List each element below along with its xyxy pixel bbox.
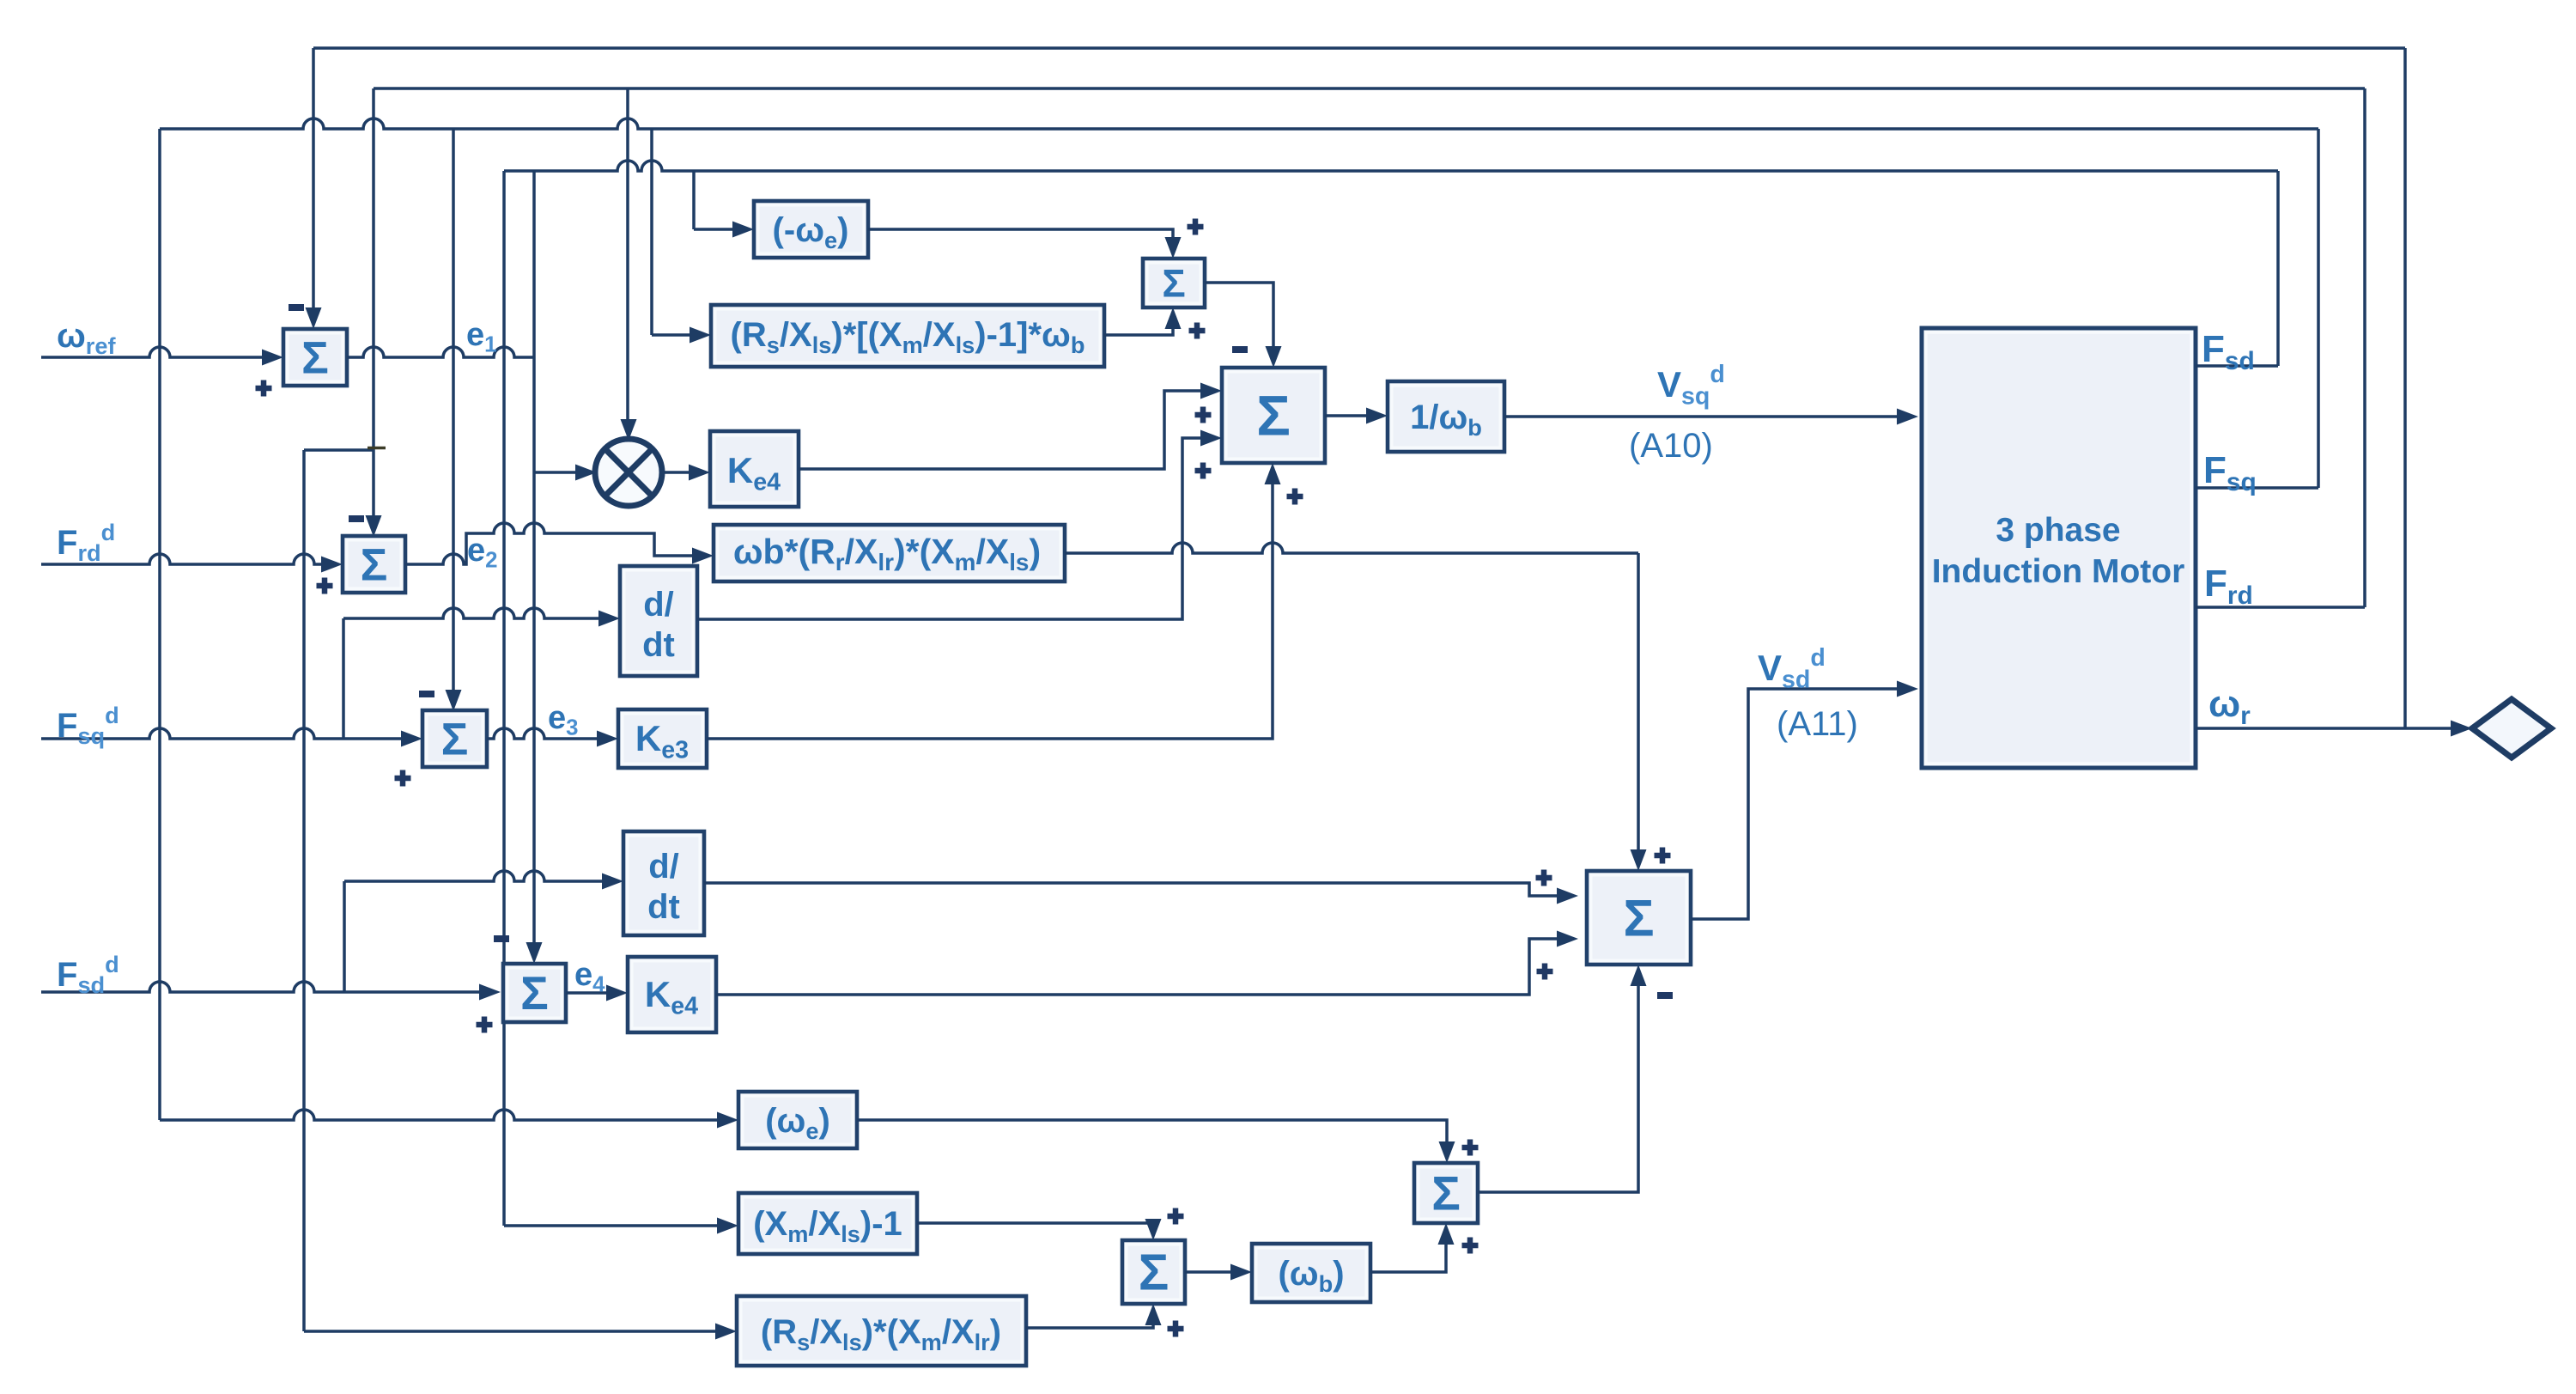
sum S4 (Vsq equation sum) [1222, 368, 1325, 463]
wire L2 Frd feedback line [374, 87, 2365, 90]
wire Fsq output from motor [2196, 486, 2318, 490]
plus sign at S3e left input [395, 770, 411, 787]
wire L4 Fsd feedback line [504, 161, 2278, 171]
svg-text:(A11): (A11) [1777, 705, 1858, 743]
wire into (omega-e) block [160, 1110, 730, 1120]
wire (Xm/Xls)-1 output to S5 top [917, 1223, 1153, 1231]
output port diamond (omega-r) [2472, 699, 2551, 758]
wire Ke3 output up into S4 bottom [707, 472, 1273, 739]
wire e2 from S2 stepping up over verticals then into wb*(Rr/Xlr)*(Xm/Xls) [405, 523, 705, 564]
svg-text:(ωe): (ωe) [765, 1102, 830, 1144]
svg-text:Σ: Σ [441, 714, 469, 764]
wire d/dt upper output to S4 left input 2 [697, 438, 1213, 619]
plus sign at S3 top input [1188, 219, 1204, 235]
wire S5 output to (wb) [1185, 1270, 1243, 1274]
multiplier X1 (product junction) [595, 439, 662, 506]
sum S7 (Vsd equation sum) [1587, 871, 1691, 965]
block 3-phase induction motor [1922, 328, 2196, 768]
svg-text:(A10): (A10) [1629, 427, 1713, 465]
svg-text:d/: d/ [648, 848, 679, 886]
svg-text:Σ: Σ [1139, 1244, 1170, 1301]
plus sign at S2 left input [317, 578, 333, 594]
svg-text:Σ: Σ [1431, 1166, 1461, 1221]
sum S6 [1414, 1163, 1478, 1223]
plus sign at S4 bottom input [1287, 489, 1303, 505]
sum S5 [1122, 1240, 1185, 1304]
svg-text:Σ: Σ [1256, 384, 1291, 447]
svg-text:Σ: Σ [361, 539, 388, 590]
wire (Rs...)wb output to S3 bottom [1104, 317, 1173, 335]
plus sign at S1 left input [256, 380, 272, 397]
wire L1 omega-r feedback top line [313, 46, 2405, 50]
wire Ke4a output to S4 left input 1 [799, 391, 1213, 469]
plus sign at S5 top input [1168, 1208, 1184, 1225]
wire multiplier output to Ke4a [660, 471, 702, 474]
wire from L4 down to (-omega-e) input [692, 171, 696, 229]
wire S4 output to 1/wb [1325, 414, 1379, 417]
wire e1 from S1 to V622 [347, 347, 534, 357]
wire V435 from L2 down into sum S2 top [372, 88, 375, 527]
svg-text:3 phase: 3 phase [1996, 512, 2120, 549]
svg-text:dt: dt [642, 626, 675, 664]
wire (-omega-e) output to S3 top [868, 229, 1173, 249]
plus sign at S5 bottom input [1168, 1321, 1184, 1337]
minus sign at S7 bottom input [1657, 992, 1673, 999]
block Ke4 (first gain) [710, 431, 799, 507]
svg-text:Σ: Σ [1162, 261, 1185, 305]
plus sign at S6 top input [1462, 1140, 1479, 1156]
wire V759 corner into block [652, 333, 702, 337]
sum S1 (speed error e1) [283, 329, 347, 386]
wire riser down into S7 top [1637, 553, 1640, 861]
block d/dt upper [620, 566, 697, 676]
plus sign at S4 input 2 [1195, 463, 1212, 479]
svg-text:dt: dt [647, 888, 680, 926]
wire Fsq-d branch up to d/dt upper [342, 618, 345, 739]
wire V2700 Fsq riser [2317, 129, 2320, 488]
wire V587 from L4 down to (Xm/Xls)-1 input [502, 171, 506, 1226]
wire d/dt lower output to S7 left input 1 [704, 883, 1570, 896]
wire (Rs/Xls)*(Xm/Xlr) output to S5 bottom [1026, 1313, 1153, 1328]
plus sign at S7 input 2 [1537, 964, 1553, 980]
minus sign at S2 top input [349, 515, 364, 522]
wire Fsd-d branch up to d/dt lower [343, 881, 346, 992]
wire V587 corner to (Xm/Xls)-1 block [504, 1224, 730, 1227]
plus sign at S4e left input [477, 1017, 493, 1033]
wire Ke4b output to S7 left input 2 [716, 939, 1570, 995]
svg-text:(-ωe): (-ωe) [773, 211, 849, 253]
wire S7 output up to Vsd-d row and into motor [1691, 689, 1910, 919]
plus sign at S7 input 1 [1536, 870, 1552, 886]
wire into d/dt lower [344, 871, 615, 881]
wire V354 corner to (Rs/Xls)*(Xm/Xlr) block [304, 1330, 728, 1333]
plus sign at S7 top input [1655, 848, 1671, 864]
wire (omega-e) output to S6 top [857, 1120, 1447, 1154]
minus sign at S4 top input [1232, 346, 1248, 353]
block Ke3 [618, 709, 707, 768]
wire V2801 omega-r riser [2403, 48, 2407, 728]
wire into (-omega-e) block [694, 228, 745, 231]
wire (wb) output to S6 bottom [1370, 1233, 1446, 1272]
block (-omega-e) [754, 201, 868, 258]
block d/dt lower [623, 831, 704, 935]
block (wb) [1252, 1244, 1370, 1302]
block (omega-e) [738, 1092, 857, 1148]
wire V354 long vertical to (Rs/Xls)*(Xm/Xlr) input [302, 450, 306, 1331]
wire V186 long vertical from L3 to (omega-e) row [158, 129, 161, 1120]
plus sign at S4 input 1 [1195, 407, 1212, 423]
plus sign at S3 bottom input [1189, 323, 1206, 339]
wire V2754 Frd riser [2363, 88, 2366, 607]
svg-text:(ωb): (ωb) [1278, 1255, 1344, 1297]
wire V759 from L3 down to (Rs/Xls)*[(Xm/Xls)-1]*wb input [650, 129, 653, 335]
wire e4 from S4e to Ke4b [566, 991, 619, 995]
wire Frd-d input [41, 554, 334, 564]
wire S3 output to S4 top [1205, 283, 1273, 358]
tick mark at V435 branch junction [368, 447, 386, 449]
block 1/wb [1388, 381, 1504, 452]
wire wb-block output to S7 top riser [1065, 543, 1638, 553]
wire V622 from L4 down into sum S4e top [532, 171, 536, 955]
wire into d/dt upper [343, 608, 611, 618]
wire e3 from S3e to Ke3 [487, 728, 610, 739]
wire Fsd-d input [41, 982, 492, 992]
minus sign at S4e top input [494, 935, 509, 942]
minus sign at S3e top input [419, 691, 434, 697]
svg-text:(Rs/Xls)*(Xm/Xlr): (Rs/Xls)*(Xm/Xlr) [761, 1313, 1001, 1355]
block (Rs/Xls)*(Xm/Xlr) [737, 1296, 1026, 1366]
sum S3e (stator flux q error e3) [422, 710, 487, 767]
wire branch V622 into multiplier left [534, 471, 587, 474]
svg-text:Σ: Σ [1623, 890, 1654, 947]
svg-text:Σ: Σ [301, 332, 329, 383]
block (Rs/Xls)*[(Xm/Xls)-1]*wb [711, 305, 1104, 367]
wire V2653 Fsd riser [2276, 171, 2280, 366]
sum S4e (stator flux d error e4) [503, 964, 566, 1022]
minus sign at S1 top input [289, 304, 304, 311]
block wb*(Rr/Xlr)*(Xm/Xls) [714, 525, 1065, 581]
block (Xm/Xls)-1 [738, 1193, 917, 1254]
sum S3 (small sum above S4) [1143, 259, 1205, 307]
wire Frd output from motor [2196, 606, 2365, 609]
wire L3 Fsq feedback line [160, 119, 2318, 129]
wire V731 from L2 down into multiplier top [626, 88, 629, 430]
wire Vsq-d to motor [1504, 415, 1910, 418]
wire V528 from L3 down into sum S3e top [452, 129, 455, 702]
svg-text:Induction Motor: Induction Motor [1932, 553, 2185, 590]
wire omega-r output from motor [2196, 727, 2464, 730]
sum S2 (rotor flux error e2) [343, 536, 405, 593]
svg-text:(Xm/Xls)-1: (Xm/Xls)-1 [753, 1205, 902, 1247]
wire S6 output up into S7 bottom [1478, 974, 1638, 1192]
wire Fsq-d input [41, 728, 414, 739]
plus sign at S6 bottom input [1462, 1238, 1479, 1254]
block Ke4 (second gain) [628, 957, 716, 1032]
svg-text:d/: d/ [643, 586, 674, 624]
wire omega-ref input [41, 347, 275, 357]
wire branch V435 to V354 [304, 448, 374, 452]
svg-text:Σ: Σ [520, 967, 549, 1020]
wire Fsd output from motor [2196, 364, 2278, 368]
wire V365 into sum S1 top [312, 48, 315, 320]
